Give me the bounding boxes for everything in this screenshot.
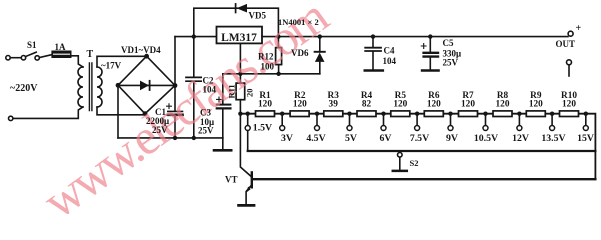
- svg-text:100: 100: [261, 62, 275, 72]
- svg-text:~17V: ~17V: [101, 61, 122, 71]
- svg-text:5V: 5V: [345, 133, 357, 144]
- svg-text:25V: 25V: [152, 125, 168, 135]
- svg-text:12V: 12V: [512, 133, 529, 144]
- svg-text:VD1~VD4: VD1~VD4: [121, 45, 161, 55]
- svg-text:S1: S1: [27, 40, 37, 50]
- svg-text:1.5V: 1.5V: [253, 123, 272, 134]
- svg-text:120: 120: [293, 100, 307, 110]
- svg-text:VT: VT: [225, 175, 238, 185]
- svg-text:+: +: [576, 23, 582, 34]
- svg-text:120: 120: [258, 100, 272, 110]
- svg-text:OUT: OUT: [556, 39, 576, 49]
- svg-text:VD5: VD5: [249, 11, 267, 21]
- svg-text:15V: 15V: [577, 133, 594, 144]
- svg-text:C5: C5: [443, 38, 454, 48]
- svg-text:13.5V: 13.5V: [541, 133, 565, 144]
- svg-text:9V: 9V: [446, 133, 458, 144]
- svg-text:LM317: LM317: [221, 32, 257, 44]
- svg-text:120: 120: [427, 100, 441, 110]
- svg-text:3V: 3V: [281, 133, 293, 144]
- svg-text:C4: C4: [384, 46, 395, 56]
- svg-text:R11: R11: [227, 84, 237, 98]
- svg-text:7.5V: 7.5V: [410, 133, 429, 144]
- svg-text:82: 82: [362, 100, 372, 110]
- svg-text:120: 120: [562, 100, 576, 110]
- svg-text:120: 120: [529, 100, 543, 110]
- svg-text:~220V: ~220V: [10, 83, 38, 94]
- svg-text:25V: 25V: [198, 126, 214, 136]
- svg-text:1N4001 × 2: 1N4001 × 2: [278, 17, 319, 27]
- svg-text:6V: 6V: [380, 133, 392, 144]
- svg-text:104: 104: [383, 56, 397, 66]
- svg-text:R12: R12: [258, 52, 274, 62]
- svg-text:120: 120: [461, 100, 475, 110]
- svg-text:20: 20: [245, 89, 255, 98]
- svg-text:10.5V: 10.5V: [474, 133, 498, 144]
- svg-text:104: 104: [203, 85, 217, 95]
- svg-text:T: T: [87, 49, 94, 60]
- svg-text:4.5V: 4.5V: [306, 133, 325, 144]
- svg-text:C3: C3: [200, 108, 211, 118]
- svg-text:VD6: VD6: [291, 48, 309, 58]
- svg-text:120: 120: [393, 100, 407, 110]
- svg-text:120: 120: [496, 100, 510, 110]
- svg-text:39: 39: [329, 100, 339, 110]
- svg-text:1A: 1A: [55, 42, 67, 52]
- svg-text:S2: S2: [410, 158, 419, 168]
- svg-text:25V: 25V: [443, 58, 459, 68]
